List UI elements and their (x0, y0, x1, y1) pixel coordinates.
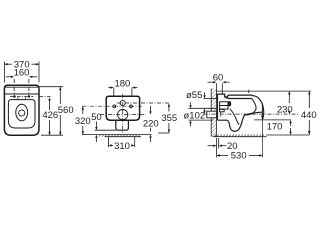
side profile front drop arrow (261, 104, 264, 120)
side floor hatch (214, 134, 264, 136)
svg-text:310: 310 (114, 141, 130, 152)
front view floor bottom line (105, 136, 142, 138)
outlet bottom line (189, 119, 214, 121)
svg-text:355: 355 (161, 113, 177, 124)
svg-text:426: 426 (42, 110, 58, 121)
side profile: trap inner curve (230, 109, 240, 125)
front view drain centerline (100, 114, 146, 116)
dimension 310 (108, 137, 134, 147)
svg-text:560: 560 (58, 105, 74, 116)
soil pipe stub (207, 111, 217, 118)
top reference line (216, 90, 311, 92)
front view fixing hole right (130, 105, 133, 108)
top view hinge centerline inside body (10, 96, 33, 98)
dimension 440 (266, 91, 311, 135)
top view lid joint line (4, 86, 39, 88)
dimension 530 (217, 103, 263, 158)
reference line y119.9 (254, 119, 291, 121)
top view body outline (4, 85, 39, 135)
side profile: back top bar (217, 94, 226, 99)
svg-text:ø102: ø102 (184, 111, 206, 122)
front view floor reference line (82, 134, 152, 136)
svg-text:50: 50 (91, 112, 102, 123)
svg-text:160: 160 (14, 68, 30, 79)
top view seat hinge ticks (17, 97, 19, 99)
top view tank band line (4, 93, 39, 95)
front view inlet centerline (117, 102, 171, 104)
top view hinge dot right (28, 95, 30, 97)
front view vertical centerline (122, 94, 124, 133)
dimension 355 (158, 103, 170, 133)
dimension 370 (4, 62, 39, 83)
svg-text:530: 530 (231, 151, 247, 162)
front view fixing holes centerline (82, 105, 143, 107)
dimension 170 (289, 120, 291, 135)
svg-text:170: 170 (267, 122, 283, 133)
top view bowl oval (16, 104, 28, 121)
wall hatched strip (211, 89, 216, 137)
front view fixing hole left (113, 105, 116, 108)
svg-text:60: 60 (213, 72, 224, 83)
svg-text:ø55: ø55 (186, 90, 202, 101)
front view drain circle (118, 110, 128, 120)
dimension 426 (48, 97, 50, 135)
dimension 20 (208, 138, 227, 158)
dimension 560 (39, 87, 63, 136)
top view seat outline (8, 100, 35, 128)
shared line inlet bottom / outlet top (189, 107, 217, 109)
top view hinge dot left (13, 95, 15, 97)
front view outlet pipe (116, 121, 129, 131)
side profile: front face (252, 95, 264, 119)
side profile: inner bowl line (247, 99, 257, 116)
side profile: back vertical (217, 96, 219, 120)
dimension 230 (288, 91, 290, 114)
side floor line (213, 136, 267, 138)
side profile: seat lid (227, 95, 252, 98)
dimension 180 (108, 86, 137, 95)
front view outlet bottom line extended (95, 129, 116, 131)
top view hinge centerline extension (39, 95, 51, 97)
svg-text:180: 180 (114, 79, 130, 90)
side profile: flush spud (227, 101, 231, 106)
pipe centerline (204, 113, 299, 115)
side profile: flush blocks (220, 102, 231, 112)
top view drain circle (19, 110, 25, 116)
svg-text:320: 320 (75, 116, 91, 127)
front view body outline (106, 96, 139, 120)
front view floor hatch (99, 135, 140, 137)
side profile: bolt dashed line (220, 112, 222, 117)
svg-text:440: 440 (301, 110, 317, 121)
inlet pipe top line (204, 98, 217, 100)
svg-text:220: 220 (143, 119, 159, 130)
top reference tick (248, 90, 250, 94)
front view inlet circle (120, 100, 125, 105)
dimension 320 (82, 106, 84, 134)
side profile: bowl outline (218, 112, 263, 131)
dimension 60 (208, 81, 230, 94)
dimension 220 (149, 106, 151, 142)
svg-text:230: 230 (277, 104, 293, 115)
dimension 160 (6, 76, 38, 96)
